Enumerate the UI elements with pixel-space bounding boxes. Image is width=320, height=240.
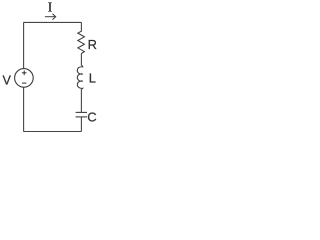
current direction arrow	[45, 14, 56, 20]
voltage source V1 circle	[15, 69, 34, 88]
wire left upper	[23, 22, 25, 68]
wire between L and C	[80, 89, 82, 112]
wire top	[23, 21, 81, 23]
svg-text:I: I	[48, 1, 53, 16]
wire bottom	[23, 131, 81, 133]
wire right top	[80, 22, 82, 31]
voltage source minus	[22, 82, 26, 84]
svg-text:L: L	[89, 71, 96, 86]
inductor L coil	[77, 65, 83, 89]
wire left lower	[23, 87, 25, 131]
wire between R and L	[80, 54, 82, 66]
svg-text:R: R	[88, 37, 97, 52]
svg-text:C: C	[87, 110, 96, 125]
wire right bottom	[80, 117, 82, 132]
svg-text:V: V	[2, 74, 11, 88]
voltage source plus	[22, 71, 27, 76]
resistor R zigzag	[78, 31, 85, 53]
capacitor C bottom plate	[76, 116, 87, 118]
capacitor C top plate	[76, 111, 87, 113]
